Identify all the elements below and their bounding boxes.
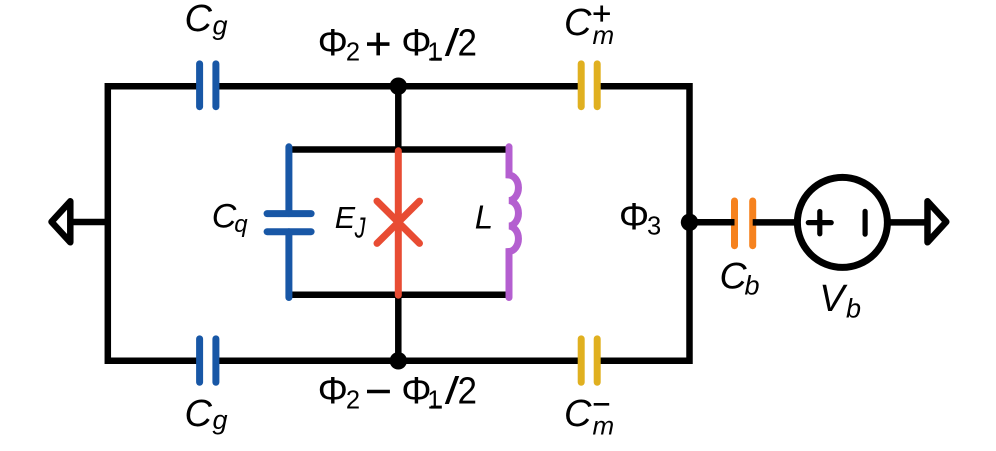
svg-text:C: C bbox=[185, 393, 213, 435]
wire source to right port bbox=[887, 219, 928, 226]
minus terminal bar inside source bbox=[862, 211, 867, 234]
svg-text:b: b bbox=[846, 294, 861, 324]
wire node phi3 to Cb bbox=[690, 219, 735, 226]
svg-text:q: q bbox=[234, 211, 248, 238]
wire Cb to source bbox=[753, 219, 799, 226]
label Cq bbox=[212, 198, 249, 239]
wire top middle segment bbox=[216, 83, 581, 90]
svg-text:2: 2 bbox=[458, 22, 478, 64]
svg-text:2: 2 bbox=[346, 386, 360, 414]
plus sign inside source bbox=[808, 212, 831, 234]
svg-text:m: m bbox=[593, 411, 615, 441]
wire bottom middle segment bbox=[216, 358, 581, 365]
node phi2+ dot bbox=[390, 78, 407, 95]
label Cm+ bbox=[564, 2, 614, 50]
svg-text:L: L bbox=[475, 198, 493, 235]
voltage source Vb circle bbox=[797, 177, 887, 267]
svg-text:3: 3 bbox=[647, 212, 661, 240]
svg-text:2: 2 bbox=[458, 371, 478, 413]
wire outer loop left: top-left, left vertical, bottom-left bbox=[108, 86, 200, 361]
capacitor Cb plates bbox=[735, 201, 753, 246]
label node phi2 + phi1/2 bbox=[318, 22, 477, 66]
svg-text:C: C bbox=[564, 2, 592, 44]
node phi3 dot bbox=[681, 214, 698, 231]
node phi2- dot bbox=[390, 352, 407, 369]
inner rect bottom edge bbox=[289, 292, 509, 299]
svg-text:J: J bbox=[354, 212, 367, 244]
svg-text:C: C bbox=[212, 198, 237, 236]
svg-text:2: 2 bbox=[346, 39, 360, 67]
wire outer loop right: top-right, right vertical, bottom-right bbox=[597, 86, 689, 361]
svg-text:C: C bbox=[185, 0, 213, 40]
svg-text:g: g bbox=[213, 405, 228, 435]
capacitor Cm+ plates bbox=[581, 64, 597, 107]
capacitor Cg bottom plates bbox=[200, 339, 216, 382]
port triangle left bbox=[52, 201, 71, 242]
svg-text:C: C bbox=[564, 393, 592, 435]
capacitor Cq branch wire blue bbox=[285, 147, 292, 214]
svg-text:b: b bbox=[745, 271, 760, 301]
inner rect top edge bbox=[289, 146, 509, 153]
capacitor Cm- plates bbox=[581, 339, 597, 382]
svg-text:E: E bbox=[335, 201, 356, 235]
label Cg bottom bbox=[185, 393, 228, 435]
svg-text:1: 1 bbox=[427, 386, 441, 414]
label Vb bbox=[819, 278, 861, 324]
svg-text:Φ: Φ bbox=[318, 22, 348, 64]
label node phi2 - phi1/2 bbox=[318, 371, 477, 415]
wire center top: node to inner rect bbox=[395, 86, 402, 150]
inductor L bbox=[509, 147, 518, 298]
svg-text:V: V bbox=[819, 278, 848, 320]
label Cg top bbox=[185, 0, 228, 41]
label phi3 bbox=[619, 196, 661, 240]
label EJ bbox=[335, 201, 367, 244]
capacitor Cg top plates bbox=[200, 64, 216, 107]
port triangle right bbox=[928, 201, 947, 242]
svg-text:1: 1 bbox=[427, 39, 441, 67]
svg-text:g: g bbox=[213, 11, 228, 41]
svg-text:m: m bbox=[593, 20, 615, 50]
svg-text:Φ: Φ bbox=[619, 196, 649, 238]
wire stub to left port bbox=[70, 219, 108, 226]
josephson junction EJ cross bbox=[377, 201, 420, 243]
wire center bottom: inner rect to bottom node bbox=[395, 294, 402, 361]
label Cb bbox=[720, 255, 760, 301]
svg-text:C: C bbox=[720, 255, 748, 297]
capacitor Cq plates bbox=[267, 214, 311, 232]
josephson junction EJ vertical wire bbox=[395, 151, 402, 295]
svg-text:Φ: Φ bbox=[318, 371, 348, 413]
label Cm- bbox=[564, 393, 614, 441]
